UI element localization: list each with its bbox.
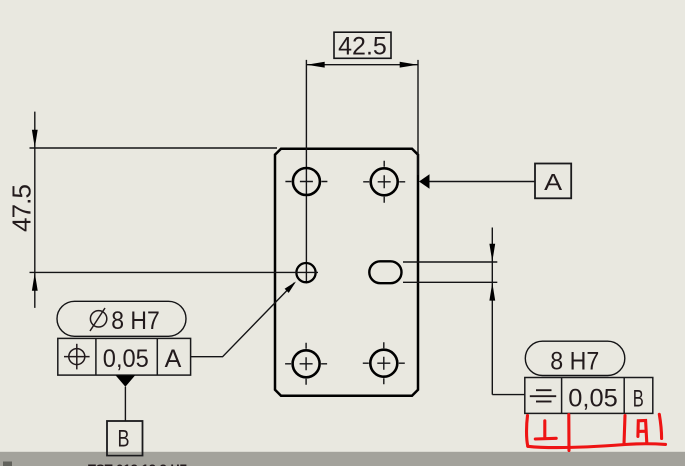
position FCF leader to middle hole bbox=[191, 283, 295, 357]
svg-text:8 H7: 8 H7 bbox=[111, 307, 160, 335]
datum A: feature triangle on plate right edge bbox=[419, 174, 430, 189]
diameter symbol bbox=[90, 308, 107, 331]
hole top-left bbox=[285, 168, 327, 195]
dimension 42.5: left arrowhead bbox=[307, 62, 325, 68]
dimension 47.5: dimension line (vertical) bbox=[34, 112, 36, 308]
svg-text:A: A bbox=[165, 345, 182, 373]
slot width dimension: dimension line bbox=[491, 228, 493, 395]
red vertical stroke 4 bbox=[659, 414, 661, 438]
datum B: bar overlap strip bbox=[108, 452, 142, 455]
hole top-right bbox=[363, 161, 405, 203]
position feature control frame: frame bbox=[58, 338, 191, 375]
datum B: box bbox=[107, 421, 143, 456]
dimension 42.5: extension line right bbox=[417, 60, 419, 175]
red letter A bbox=[638, 421, 647, 444]
datum A: box bbox=[535, 164, 571, 199]
red left bracket stroke bbox=[527, 416, 528, 447]
datum B: leader line bbox=[124, 387, 126, 421]
red vertical stroke 2 bbox=[567, 415, 570, 451]
taskbar (bottom grey bar) bbox=[0, 452, 685, 466]
svg-text:0,05: 0,05 bbox=[568, 384, 618, 412]
svg-text:B: B bbox=[633, 386, 644, 413]
slot width dimension: bottom extension line bbox=[403, 281, 497, 283]
hole bottom-right bbox=[363, 342, 405, 384]
hole middle-left (8 H7) bbox=[296, 263, 315, 282]
dimension 47.5: bottom arrowhead bbox=[32, 273, 38, 291]
svg-text:42.5: 42.5 bbox=[338, 32, 387, 60]
slot width dimension: top arrowhead bbox=[489, 244, 495, 262]
datum A: leader line bbox=[430, 181, 536, 183]
svg-text:TST 013 13 2 H7: TST 013 13 2 H7 bbox=[88, 462, 187, 466]
dimension 47.5: top arrowhead bbox=[32, 130, 38, 148]
balloon diameter 8 H7 (stadium) bbox=[57, 301, 186, 336]
dimension 47.5: top extension line bbox=[30, 147, 278, 149]
svg-text:B: B bbox=[118, 426, 130, 453]
leader from slot dimension to symmetry frame bbox=[492, 394, 525, 396]
symmetry feature control frame: frame bbox=[525, 378, 653, 414]
svg-text:47.5: 47.5 bbox=[7, 184, 37, 232]
dimension 47.5: bottom extension line bbox=[30, 271, 319, 273]
dimension 42.5: dimension line bbox=[306, 64, 418, 66]
balloon 8 H7 (stadium, right) bbox=[525, 341, 625, 375]
position symbol bbox=[64, 344, 90, 370]
slot (obround) bbox=[369, 261, 401, 283]
position FCF leader arrowhead bbox=[285, 282, 296, 293]
dimension 42.5: right arrowhead bbox=[400, 62, 418, 68]
datum B: triangle under position FCF bbox=[116, 375, 136, 386]
slot width dimension: top extension line bbox=[403, 261, 497, 263]
red vertical stroke 3 bbox=[624, 416, 625, 445]
hole bottom-left bbox=[285, 343, 327, 385]
svg-text:8 H7: 8 H7 bbox=[550, 348, 599, 376]
slot width dimension: bottom arrowhead bbox=[489, 283, 495, 301]
red annotations (hand drawn) bbox=[527, 414, 666, 450]
centerline through top-left and middle-left holes bbox=[305, 60, 307, 284]
red bottom wavy line bbox=[528, 444, 666, 448]
red perpendicularity symbol bbox=[535, 421, 556, 439]
svg-text:0,05: 0,05 bbox=[103, 345, 149, 373]
symmetry FCF: cell dividers bbox=[562, 378, 625, 414]
symmetry symbol (three lines) bbox=[530, 390, 556, 401]
position FCF: cell dividers bbox=[96, 338, 157, 375]
plate outline (chamfered rectangle) bbox=[275, 149, 418, 396]
dimension 42.5: text box bbox=[334, 32, 391, 58]
svg-text:A: A bbox=[544, 169, 562, 195]
